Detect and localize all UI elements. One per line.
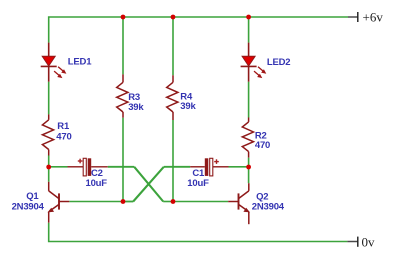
wire junction to C2 — [49, 166, 68, 168]
transistor Q2 2N3904 NPN (base left) — [228, 183, 250, 224]
node junction R3/base row — [121, 199, 126, 204]
svg-text:LED1: LED1 — [68, 57, 92, 68]
wire Q1 base row — [69, 201, 133, 203]
wire crossover to C1 — [164, 166, 190, 168]
resistor R1 — [42, 114, 53, 155]
node junction R4/base row — [171, 199, 176, 204]
resistor R2 470 — [242, 118, 253, 158]
wire crossover diagonal C2-to-Q2base — [134, 167, 163, 202]
svg-text:2N3904: 2N3904 — [12, 202, 45, 213]
node junction rail/R3 — [121, 15, 126, 20]
node junction C1/R2/Q2-collector — [246, 165, 251, 170]
wire C1 to junction — [229, 166, 249, 168]
resistor R3 39k — [117, 74, 128, 117]
node junction rail/R4 — [171, 15, 176, 20]
wire R4 to base row — [172, 120, 174, 202]
LED LED2 — [241, 43, 267, 82]
wire R3 top rail — [122, 17, 124, 74]
wire Q2 base row — [173, 201, 228, 203]
svg-text:10uF: 10uF — [187, 178, 209, 189]
wire LED2 top rail — [248, 17, 250, 43]
svg-text:39k: 39k — [180, 101, 196, 112]
node junction R1/C2/Q1-collector — [46, 165, 51, 170]
wire R4 top rail — [172, 17, 174, 75]
wire R1 to junction — [48, 156, 50, 168]
wire junction down to Q1 collector — [48, 167, 50, 182]
wire junction down to Q2 collector — [248, 167, 250, 183]
svg-text:470: 470 — [56, 131, 71, 142]
node junction rail/LED2 — [246, 15, 251, 20]
transistor Q1 2N3904 NPN (mirrored, base right) — [48, 182, 70, 223]
wire LED2 to R2 — [248, 82, 250, 118]
wire C2 to crossover — [108, 166, 134, 168]
capacitor C2 10uF polarized — [68, 158, 108, 176]
capacitor C1 10uF polarized — [190, 158, 228, 176]
svg-text:LED2: LED2 — [267, 57, 290, 68]
svg-text:2N3904: 2N3904 — [252, 201, 285, 212]
ground 0v power symbol — [347, 234, 375, 249]
+6v power symbol — [348, 10, 383, 25]
wire bottom 0v rail — [49, 223, 348, 242]
wire R3 to base row — [122, 118, 124, 202]
wire crossover diagonal Q1base-to-C1 — [133, 167, 164, 202]
svg-text:470: 470 — [255, 140, 270, 151]
LED LED1 — [41, 43, 67, 82]
svg-text:Q1: Q1 — [26, 191, 39, 202]
wire top +6v rail — [49, 17, 348, 43]
svg-text:0v: 0v — [362, 234, 376, 249]
svg-text:39k: 39k — [128, 102, 144, 113]
wire R2 to junction — [248, 158, 250, 167]
svg-text:+6v: +6v — [363, 10, 384, 25]
svg-text:R1: R1 — [57, 121, 70, 132]
wire lower-right stub to R4 node — [163, 201, 173, 203]
wire LED1 to R1 — [48, 82, 50, 115]
resistor R4 39k — [167, 75, 178, 120]
svg-text:10uF: 10uF — [86, 178, 108, 189]
wire lower-left stub to R3 node — [123, 201, 133, 203]
